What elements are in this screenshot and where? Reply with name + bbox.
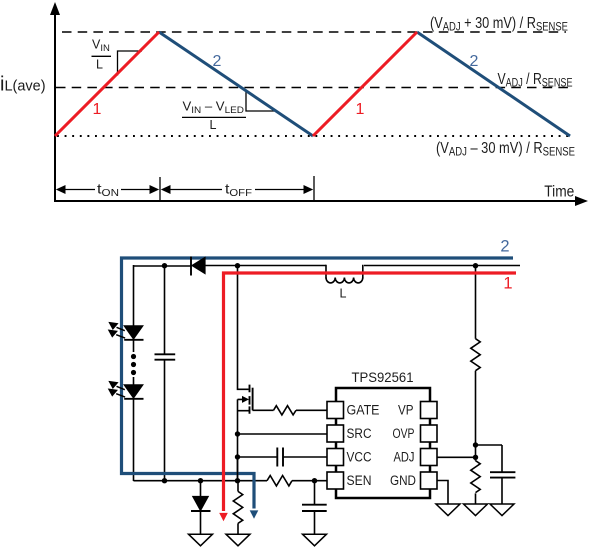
svg-text:1: 1 — [93, 101, 102, 118]
svg-text:VP: VP — [398, 403, 414, 418]
svg-text:GND: GND — [390, 473, 416, 488]
svg-text:iL(ave): iL(ave) — [0, 73, 46, 95]
svg-text:L: L — [96, 58, 103, 72]
svg-text:tON: tON — [97, 181, 119, 199]
svg-text:VIN – VLED: VIN – VLED — [183, 100, 245, 116]
svg-text:2: 2 — [500, 238, 509, 256]
svg-text:1: 1 — [503, 275, 512, 293]
svg-text:TPS92561: TPS92561 — [352, 370, 414, 385]
svg-text:SEN: SEN — [347, 473, 372, 488]
svg-text:SRC: SRC — [347, 426, 372, 441]
svg-text:VADJ / RSENSE: VADJ / RSENSE — [498, 71, 573, 90]
svg-text:2: 2 — [213, 53, 222, 70]
svg-text:2: 2 — [470, 53, 479, 70]
svg-text:L: L — [340, 287, 347, 301]
svg-text:L: L — [210, 118, 217, 132]
svg-text:(VADJ + 30 mV) / RSENSE: (VADJ + 30 mV) / RSENSE — [430, 15, 568, 34]
svg-text:ADJ: ADJ — [394, 450, 415, 465]
svg-text:VCC: VCC — [347, 450, 372, 465]
svg-text:Time: Time — [544, 184, 574, 201]
svg-text:1: 1 — [356, 101, 365, 118]
svg-text:OVP: OVP — [393, 426, 415, 441]
svg-text:VIN: VIN — [92, 38, 110, 54]
svg-text:GATE: GATE — [347, 403, 380, 418]
svg-text:tOFF: tOFF — [225, 181, 252, 199]
svg-text:(VADJ – 30 mV) / RSENSE: (VADJ – 30 mV) / RSENSE — [436, 140, 575, 159]
